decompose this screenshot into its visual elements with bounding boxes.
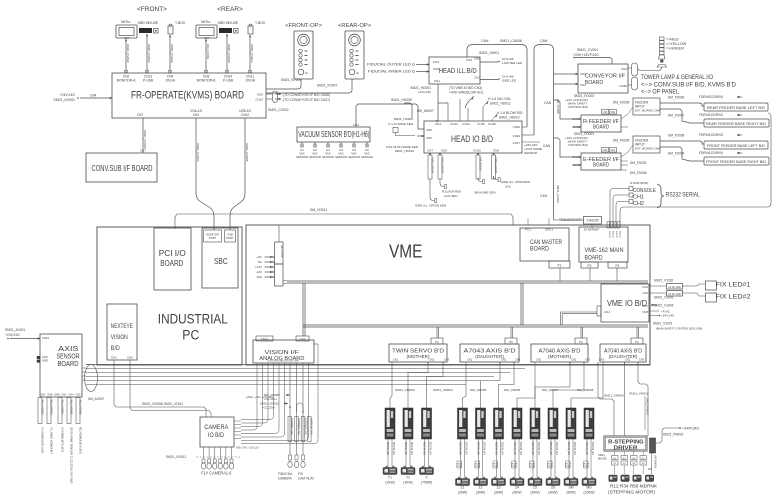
svg-text:DO3M: DO3M — [475, 466, 481, 468]
wire SM21_KV002 device to KVMS board — [125, 39, 127, 73]
motor symbol at x=517 — [510, 479, 524, 486]
svg-text:SENSOR: SENSOR — [296, 155, 308, 159]
board A7040 AXIS B'D (MOTHER) — [531, 344, 588, 362]
board CAMERA IO B/D — [200, 417, 234, 447]
servo driver module at x=589 — [584, 408, 594, 439]
servo driver module at x=426.5 — [422, 408, 432, 439]
svg-text:GND: GND — [47, 394, 53, 397]
svg-text:-(TO CONVEYOR I/F B/D CN26): -(TO CONVEYOR I/F B/D CN26) — [282, 93, 330, 97]
svg-text:SENSOR: SENSOR — [348, 155, 360, 159]
motor symbol at x=390 — [383, 468, 397, 475]
svg-text:CN3: CN3 — [580, 83, 586, 87]
svg-text:BOARD: BOARD — [585, 80, 603, 86]
wire driver to motor x=535 — [532, 439, 534, 477]
wire to 4th stepping motor — [651, 453, 653, 474]
wire can stub to feeder — [554, 100, 574, 119]
svg-text:B000M_M1: B000M_M1 — [392, 442, 395, 455]
wire driver to motor x=517 — [514, 439, 516, 477]
svg-text:Y1: Y1 — [388, 476, 392, 480]
svg-text:SM_AX0006: SM_AX0006 — [79, 400, 83, 416]
board PCI I/O BOARD — [154, 228, 191, 290]
svg-text:CN1: CN1 — [599, 358, 605, 362]
svg-text:CN2: CN2 — [474, 76, 480, 80]
svg-text:SM21_CV001: SM21_CV001 — [577, 48, 598, 52]
wire head ill CN1 down to HEAD IO — [437, 84, 439, 121]
connector P1 tab A7043 AXIS B'D — [505, 338, 517, 344]
svg-text:CN4: CN4 — [603, 111, 608, 114]
svg-text:(30W): (30W) — [530, 491, 539, 495]
svg-text:CN4: CN4 — [642, 285, 648, 289]
svg-text:DO3M: DO3M — [565, 466, 571, 468]
wire driver to motor x=553 — [550, 439, 552, 477]
wires below HEAD IO with boxed labels and hooks — [429, 153, 431, 155]
svg-text:SM21_VM003: SM21_VM003 — [395, 388, 415, 392]
svg-text:BOARD: BOARD — [530, 246, 549, 253]
svg-text:B100M_M1: B100M_M1 — [537, 442, 540, 455]
fiducial camera connectors — [289, 455, 292, 460]
svg-text:PCI I/O: PCI I/O — [159, 249, 186, 258]
svg-text:T-BOX: T-BOX — [255, 21, 266, 25]
svg-text:+4VD VME/BLOW SOL: +4VD VME/BLOW SOL — [449, 91, 484, 95]
board TWIN SERVO B'D (MOTHER) — [389, 344, 447, 362]
svg-text:Z 1-6 HOME SEN: Z 1-6 HOME SEN — [388, 122, 413, 126]
svg-text:SENSOR: SENSOR — [57, 354, 80, 361]
svg-text:CN10: CN10 — [473, 149, 481, 153]
svg-text:AUX.SEN: AUX.SEN — [444, 194, 458, 198]
svg-text:KBD MOUSE: KBD MOUSE — [138, 21, 159, 25]
svg-text:CN10: CN10 — [255, 98, 263, 102]
svg-text:(750W): (750W) — [421, 481, 432, 485]
svg-text:CN1: CN1 — [40, 394, 46, 397]
svg-text:=>GREEN: =>GREEN — [666, 47, 684, 51]
servo driver module at x=535 — [530, 408, 540, 439]
wire driver to motor x=480.5 — [478, 439, 480, 477]
wire SM21_KV004 device to KVMS board — [146, 34, 148, 73]
svg-text:VME-162 MAIN: VME-162 MAIN — [585, 247, 624, 254]
motor symbol at x=462.5 — [456, 479, 470, 486]
wire SM21_KV005 USB to usb port — [230, 118, 245, 230]
wire SM21_KV005 device to KVMS board — [226, 34, 228, 73]
svg-text:CN13: CN13 — [462, 122, 470, 126]
board A7040 AXIS B'D (DAUGHTER) — [600, 344, 646, 362]
svg-text:CAMERA: CAMERA — [278, 477, 293, 481]
svg-text:CN5: CN5 — [441, 149, 447, 153]
board VME IO B/D — [601, 284, 649, 322]
wire CAN arch riser CN19 to main CAN bus — [534, 45, 554, 216]
svg-text:CONTROL B/D): CONTROL B/D) — [568, 105, 588, 109]
svg-text:B100M_M2: B100M_M2 — [495, 442, 498, 455]
board FRONT FEEDER BASE RIGHT B/D — [704, 157, 769, 165]
svg-text:H 1-6 VAC.SOL: H 1-6 VAC.SOL — [488, 97, 511, 101]
svg-text:HSI/-,VSI/-,+12V,12G: HSI/-,VSI/-,+12V,12G — [236, 447, 259, 450]
ribbon obrounds conveyor — [632, 63, 638, 76]
svg-text:T-BOX: T-BOX — [175, 21, 186, 25]
svg-text:CN4: CN4 — [90, 94, 97, 98]
svg-text:B100M_M2: B100M_M2 — [477, 442, 480, 455]
svg-text:CN15: CN15 — [477, 122, 485, 126]
svg-text:B100M_M1: B100M_M1 — [591, 442, 594, 455]
svg-text:+24V,24G: +24V,24G — [418, 90, 432, 94]
svg-text:P1: P1 — [616, 264, 620, 268]
svg-text:BOARD: BOARD — [160, 259, 183, 268]
svg-text:IO B/D: IO B/D — [208, 433, 225, 439]
motor symbol at x=553 — [546, 479, 560, 486]
svg-text:X HOME/LMT(-LMT): X HOME/LMT(-LMT) — [61, 427, 65, 452]
svg-text:CAM #1,#2: CAM #1,#2 — [298, 477, 314, 481]
board CONVEYOR I/F BOARD — [578, 64, 628, 93]
svg-text:B100M_M2: B100M_M2 — [585, 442, 588, 455]
wire driver to motor x=589 — [586, 439, 588, 477]
connector P1 can master — [549, 261, 570, 268]
svg-text:SM00B(I/F_3M): SM00B(I/F_3M) — [303, 418, 306, 435]
svg-text:SBC: SBC — [214, 257, 228, 266]
svg-text:SM21_VM009: SM21_VM009 — [604, 394, 624, 398]
vacuum sensor H5 stub — [353, 142, 355, 147]
svg-text:CAN: CAN — [544, 101, 552, 105]
svg-text:P-USB: P-USB — [143, 79, 154, 83]
wire head ill CN6 to lighter LED — [480, 61, 500, 62]
board VACUUM SENSOR B'D(H1-H6) — [297, 127, 370, 142]
svg-text:KBD MOUSE: KBD MOUSE — [218, 21, 239, 25]
svg-text:SENSOR: SENSOR — [309, 155, 321, 159]
svg-text:CN5: CN5 — [257, 93, 263, 97]
svg-text:SM005(I/F_3M): SM005(I/F_3M) — [290, 418, 293, 435]
svg-text:CH2: CH2 — [633, 201, 644, 207]
svg-text:BOARD: BOARD — [593, 163, 609, 169]
wire +34VP,34G — [656, 428, 680, 443]
svg-text:CN6: CN6 — [426, 136, 432, 140]
svg-text:CONTROL B/D): CONTROL B/D) — [568, 143, 588, 147]
axis sensor stubs and labels — [38, 398, 42, 424]
svg-text:B100M_M1: B100M_M1 — [483, 442, 486, 455]
fix led 2 box — [706, 293, 717, 302]
svg-text:SM21_KV022: SM21_KV022 — [170, 44, 174, 63]
svg-text:DO3M: DO3M — [457, 466, 463, 468]
svg-text:CN12: CN12 — [241, 113, 249, 117]
svg-text:FDRV/6,DDRV/6: FDRV/6,DDRV/6 — [699, 95, 723, 99]
svg-text:CAN: CAN — [481, 39, 489, 43]
wires rs232 to vme-162 — [610, 189, 629, 229]
svg-text:DM_FD005: DM_FD005 — [613, 101, 630, 105]
svg-text:MON.: MON. — [121, 20, 130, 24]
fix led 1 box — [706, 281, 717, 290]
board REAR FEEDER BASE RIGHT B/D — [704, 119, 769, 127]
svg-text:CN2: CN2 — [61, 394, 67, 397]
svg-text:HEAD IO B/D: HEAD IO B/D — [451, 134, 493, 145]
svg-text:<FRONT-OP>: <FRONT-OP> — [285, 23, 322, 29]
svg-text:FIDUCIAL: FIDUCIAL — [278, 472, 293, 476]
svg-text:DM21_PM002: DM21_PM002 — [663, 433, 684, 437]
connector P1 tab A7040 AXIS B'D — [631, 338, 643, 344]
svg-text:SENSOR: SENSOR — [335, 155, 347, 159]
svg-text:CN11: CN11 — [261, 337, 269, 341]
vme backplane power connector — [275, 242, 284, 264]
svg-text:GND: GND — [54, 394, 60, 397]
svg-text:CONSOLE: CONSOLE — [633, 188, 656, 194]
svg-text:SM_RM004: SM_RM004 — [654, 455, 657, 469]
rs232 console connector — [629, 187, 633, 191]
svg-text:SM21_VI3004I,SM21_VI3I12: SM21_VI3004I,SM21_VI3I12 — [142, 402, 184, 406]
svg-text:CN8: CN8 — [426, 128, 432, 132]
svg-text:BOARD: BOARD — [593, 125, 609, 131]
svg-text:CN7: CN7 — [137, 113, 144, 117]
board R-STEPPING DRIVER — [604, 436, 647, 451]
svg-text:B000M_M2: B000M_M2 — [386, 442, 389, 455]
svg-text:SOL: SOL — [505, 185, 511, 189]
wire front-op panel to KVMS CN5 — [266, 79, 301, 89]
svg-text:SM_AX007: SM_AX007 — [88, 397, 104, 401]
board FEEDER INPUT EXT.BOARD — [633, 136, 660, 153]
svg-text:R12 R34 R56 MDRNK: R12 R34 R56 MDRNK — [610, 484, 658, 489]
svg-text:CN1: CN1 — [193, 113, 200, 117]
svg-text:CN3: CN3 — [466, 58, 472, 62]
svg-text:Y2: Y2 — [406, 476, 410, 480]
svg-text:FIDUCIAL OUTER LED: FIDUCIAL OUTER LED — [367, 63, 412, 67]
svg-text:DRIVER: DRIVER — [614, 446, 639, 452]
svg-text:BOARD: BOARD — [585, 255, 603, 262]
svg-text:MD: MD — [586, 486, 592, 490]
camera connectors fly camera — [203, 447, 205, 459]
svg-text:SM21_VM004: SM21_VM004 — [433, 388, 453, 392]
svg-text:<REAR>: <REAR> — [217, 6, 243, 13]
svg-text:B100M_M1: B100M_M1 — [555, 442, 558, 455]
wire feeder return bus right side — [620, 113, 771, 228]
connector P2 vme-162 — [581, 262, 598, 268]
svg-text:JOG/A: JOG/A — [165, 79, 176, 83]
svg-text:B100M_M2: B100M_M2 — [459, 442, 462, 455]
wire tower lamp to conveyor — [638, 67, 662, 71]
svg-text:CN1: CN1 — [393, 358, 399, 362]
svg-text:B100M_M1: B100M_M1 — [501, 442, 504, 455]
svg-text:INDUSTRIAL: INDUSTRIAL — [158, 312, 228, 327]
svg-text:B100M_M2: B100M_M2 — [549, 442, 552, 455]
board VME-162 MAIN BOARD — [579, 227, 628, 262]
wire ext board to base left — [660, 103, 704, 106]
svg-text:(STEPPING MOTOR): (STEPPING MOTOR) — [608, 490, 655, 496]
svg-text:CN1: CN1 — [467, 358, 473, 362]
svg-text:SM21_V1002: SM21_V1002 — [654, 279, 674, 283]
svg-text:SM21_V1001: SM21_V1001 — [653, 322, 673, 326]
svg-text:FIDUCIAL INNER LED: FIDUCIAL INNER LED — [368, 70, 412, 74]
wire SM_KV003 device to KVMS board — [205, 39, 207, 73]
svg-text:H 1-6 BLOW SOL: H 1-6 BLOW SOL — [497, 111, 523, 115]
svg-text:B100M_M2: B100M_M2 — [567, 442, 570, 455]
svg-text:(50W): (50W) — [566, 491, 575, 495]
svg-text:DM: DM — [648, 468, 652, 471]
svg-text:(MOTHER): (MOTHER) — [548, 354, 571, 359]
dashed line camera group — [196, 456, 240, 458]
board CONV.SUB I/F BOARD — [86, 153, 157, 182]
svg-text:CN12: CN12 — [450, 122, 458, 126]
svg-text:FIX LED#2: FIX LED#2 — [716, 294, 751, 301]
motor symbol at x=408 — [401, 468, 415, 475]
svg-text:5G: 5G — [258, 260, 263, 264]
svg-text:D-SUB 9P(M): D-SUB 9P(M) — [630, 181, 648, 185]
svg-text:SM21_KV004: SM21_KV004 — [147, 44, 151, 63]
svg-text:+24V,24G: +24V,24G — [661, 314, 675, 318]
svg-text:SM21_V1003: SM21_V1003 — [654, 296, 674, 300]
svg-text:SM21_V1004: SM21_V1004 — [654, 304, 674, 308]
servo driver module at x=480.5 — [476, 408, 486, 439]
svg-text:(1KW): (1KW) — [403, 481, 413, 485]
board AXIS SENSOR BOARD — [40, 334, 82, 397]
svg-text:CN4: CN4 — [621, 67, 627, 71]
svg-text:USB: USB — [227, 233, 233, 237]
connector CN4 CN1 feeder — [602, 110, 609, 115]
svg-text:+24V,24G: +24V,24G — [59, 93, 75, 97]
svg-text:3M HOME SEN: 3M HOME SEN — [474, 191, 496, 195]
svg-text:TJA1050: TJA1050 — [586, 219, 599, 223]
rs232 bracket — [657, 184, 664, 208]
board HEAD ILL.B/D — [429, 57, 480, 84]
svg-text:FIX: FIX — [298, 472, 304, 476]
svg-text:GND: GND — [42, 359, 48, 363]
wires vision board fan lower group — [241, 363, 279, 434]
svg-text:SM21_HD015: SM21_HD015 — [494, 157, 498, 174]
svg-text:SENSOR: SENSOR — [524, 151, 538, 155]
svg-text:ETHERNET: ETHERNET — [584, 228, 600, 232]
wire SM21_KV023 device to KVMS board — [249, 35, 251, 73]
wire vme io CN1 left and down — [561, 312, 598, 325]
svg-text:-12V: -12V — [256, 270, 262, 274]
svg-text:CN2: CN2 — [429, 358, 435, 362]
board NEXTEYE VISION B/D — [107, 304, 137, 360]
connector MONITOR PORT — [204, 230, 222, 242]
board FRONT FEEDER BASE LEFT B/D — [704, 141, 768, 149]
label +FL42 +24V,24G — [651, 304, 657, 306]
svg-text:+34VP,34G: +34VP,34G — [682, 427, 700, 431]
wire vertical pm003 — [644, 396, 646, 430]
svg-text:(1KW): (1KW) — [385, 481, 395, 485]
svg-text:<REAR-OP>: <REAR-OP> — [338, 23, 372, 29]
svg-text:CN2: CN2 — [571, 358, 577, 362]
svg-text:RS232: RS232 — [612, 231, 614, 238]
svg-text:P1: P1 — [579, 340, 583, 344]
wire nexteye CH2 to camera board — [130, 360, 211, 417]
svg-text:CN7: CN7 — [427, 149, 433, 153]
svg-text:EXT. BOARD CN#: EXT. BOARD CN# — [635, 147, 660, 151]
chassis VME — [246, 225, 650, 365]
svg-text:CN2: CN2 — [501, 358, 507, 362]
svg-text:RS232: RS232 — [615, 231, 617, 238]
svg-text:Z2: Z2 — [479, 486, 483, 490]
connector USB PORT — [225, 230, 236, 242]
svg-text:BOARD: BOARD — [58, 361, 79, 368]
board HEAD IO B/D — [424, 121, 522, 153]
wire driver to motor x=498.5 — [496, 439, 498, 477]
svg-text:DM_FD00A: DM_FD00A — [630, 171, 648, 175]
svg-text:SIDE ILL. UP/ON SEN: SIDE ILL. UP/ON SEN — [415, 204, 446, 208]
svg-text:B000M_M1: B000M_M1 — [410, 442, 413, 455]
board FR-OPERATE(KVMS) BOARD — [112, 73, 266, 118]
svg-text:B100M_M1: B100M_M1 — [573, 442, 576, 455]
svg-text:SM21_KV005: SM21_KV005 — [245, 143, 249, 162]
svg-text:DM21_PM003: DM21_PM003 — [646, 398, 650, 415]
svg-text:Z9-Z8 HOME SENSOR Z1,Z3,Z5,5A,: Z9-Z8 HOME SENSOR Z1,Z3,Z5,5A,24G,GND — [70, 427, 74, 483]
svg-text:A/D CONV: A/D CONV — [280, 245, 284, 258]
svg-text:SM: SM — [568, 486, 573, 490]
connector ticks on KVMS top edge — [125, 71, 128, 74]
svg-text:CAN: CAN — [543, 144, 551, 148]
svg-text:B100M_M2: B100M_M2 — [513, 442, 516, 455]
svg-text:B000M_M2: B000M_M2 — [404, 442, 407, 455]
board SBC — [202, 228, 238, 288]
wire backplane inner loop — [302, 283, 304, 336]
svg-text:<--> CONV.SUB I/F B/D, KVMS B': <--> CONV.SUB I/F B/D, KVMS B'D — [641, 83, 737, 89]
svg-text:FDRV/6,DDRV/6: FDRV/6,DDRV/6 — [699, 151, 723, 155]
svg-text:Z5: Z5 — [533, 486, 537, 490]
wire harness bus lines — [86, 364, 650, 366]
wire driver to motor x=462.5 — [460, 439, 462, 477]
svg-text:SM21_CA001: SM21_CA001 — [556, 185, 560, 203]
svg-text:SM21_CA006: SM21_CA006 — [500, 39, 522, 43]
svg-text:SM21_HD013: SM21_HD013 — [441, 157, 445, 174]
svg-text:CN8: CN8 — [642, 310, 648, 314]
svg-text:P1: P1 — [558, 264, 562, 268]
svg-text:CAN: CAN — [540, 194, 548, 198]
svg-text:CN9: CN9 — [493, 149, 499, 153]
wire ext board to base left — [660, 141, 704, 144]
svg-text:Y1 HOME/LMT(-LMT): Y1 HOME/LMT(-LMT) — [41, 427, 45, 453]
servo driver module at x=390 — [385, 408, 395, 439]
svg-text:FLY CAMERA1-6: FLY CAMERA1-6 — [201, 471, 231, 477]
board A7043 AXIS B'D (DAUGHTER) — [460, 344, 519, 362]
svg-text:MON.: MON. — [201, 20, 210, 24]
svg-text:(30W): (30W) — [476, 491, 485, 495]
svg-text:SM_AX0003: SM_AX0003 — [50, 400, 54, 416]
svg-text:RS232 SERIAL: RS232 SERIAL — [666, 192, 700, 199]
wires mesh above HEAD IO — [404, 103, 412, 118]
svg-text:B100M_M1: B100M_M1 — [465, 442, 468, 455]
wire CAN to conveyor CN2 CN3 — [554, 73, 569, 75]
svg-text:CN3: CN3 — [585, 358, 591, 362]
connector CN11 tab — [256, 336, 273, 341]
svg-text:CN1: CN1 — [611, 111, 616, 114]
svg-text:FIX LED#1: FIX LED#1 — [716, 282, 751, 289]
servo driver module at x=462.5 — [458, 408, 468, 439]
cable bundle ellipse — [85, 365, 98, 392]
svg-text:CN1: CN1 — [299, 337, 305, 341]
svg-text:REAR FEEDER BASE LEFT B/D: REAR FEEDER BASE LEFT B/D — [707, 105, 765, 110]
svg-text:SENSOR: SENSOR — [322, 155, 334, 159]
svg-text:NC,HOME/LMT(-LMT): NC,HOME/LMT(-LMT) — [79, 427, 83, 454]
svg-text:CN7: CN7 — [642, 304, 648, 308]
svg-text:MD03A: MD03A — [598, 457, 607, 461]
svg-text:SM21_HD010: SM21_HD010 — [395, 149, 415, 153]
wires bus to driver group 2 — [463, 365, 467, 408]
transceiver chip TJA1050 — [584, 217, 602, 225]
wire SM21_KV003 VGA to monitor port — [196, 118, 214, 230]
svg-text:CN2: CN2 — [625, 358, 631, 362]
svg-text:SM21_: SM21_ — [598, 453, 607, 457]
svg-text:CAMERA: CAMERA — [204, 425, 228, 431]
svg-text:SM21_KV001: SM21_KV001 — [53, 98, 75, 102]
connector CN4 CN1 feeder — [602, 148, 609, 153]
svg-text:REAR FEEDER BASE RIGHT B/D: REAR FEEDER BASE RIGHT B/D — [706, 121, 766, 126]
svg-text:SM21_VI3011: SM21_VI3011 — [166, 455, 186, 459]
wire head io vertical risers to conveyor area — [649, 322, 651, 364]
svg-text:SM006(I/F_3M): SM006(I/F_3M) — [297, 418, 300, 435]
solenoid symbol — [465, 99, 471, 108]
svg-text:L/U07,GA4,/GA5,CN4,CN1,GND: L/U07,GA4,/GA5,CN4,CN1,GND — [267, 360, 299, 363]
svg-text:CH1: CH1 — [633, 195, 644, 201]
motor symbol at x=589 — [582, 479, 596, 486]
svg-text:SM21_HD011: SM21_HD011 — [490, 102, 511, 106]
vacuum sensor H6 stub — [366, 142, 368, 147]
svg-text:JOG/B: JOG/B — [245, 79, 256, 83]
svg-text:DO3M: DO3M — [547, 466, 553, 468]
svg-text:Y2_HM02 HOME/LMT: Y2_HM02 HOME/LMT — [50, 427, 54, 454]
